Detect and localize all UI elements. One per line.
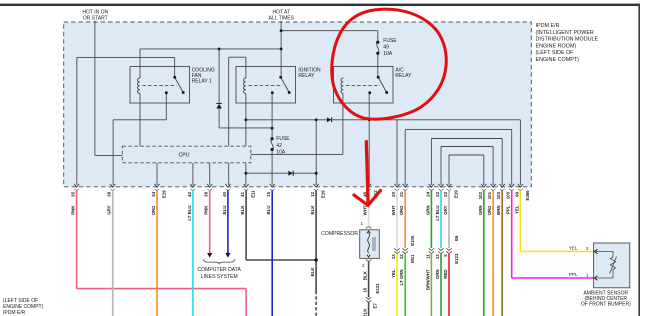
svg-text:(LEFT SIDE OF: (LEFT SIDE OF xyxy=(536,50,575,56)
svg-text:BLK: BLK xyxy=(363,308,368,316)
svg-text:PPL: PPL xyxy=(506,205,511,214)
svg-text:103: 103 xyxy=(496,191,501,199)
svg-text:E7: E7 xyxy=(372,303,377,309)
svg-text:BLK: BLK xyxy=(240,205,245,215)
svg-text:HOT AT: HOT AT xyxy=(272,9,290,15)
svg-text:GRN: GRN xyxy=(425,206,430,216)
svg-text:WHT: WHT xyxy=(363,205,368,215)
svg-text:RED: RED xyxy=(443,270,448,279)
svg-text:22: 22 xyxy=(435,191,440,196)
svg-text:HOT IN ON: HOT IN ON xyxy=(82,9,108,15)
svg-text:42: 42 xyxy=(187,191,192,196)
svg-text:BLK: BLK xyxy=(310,205,315,215)
svg-text:BLK: BLK xyxy=(363,270,368,280)
svg-text:DISTRIBUTION MODULE: DISTRIBUTION MODULE xyxy=(536,37,599,43)
svg-text:10: 10 xyxy=(363,287,368,292)
svg-text:YEL: YEL xyxy=(391,269,396,278)
svg-text:(LEFT SIDE OF: (LEFT SIDE OF xyxy=(3,298,38,304)
svg-text:41: 41 xyxy=(240,191,245,196)
svg-text:15: 15 xyxy=(266,191,271,196)
svg-text:35: 35 xyxy=(71,191,76,196)
svg-text:11: 11 xyxy=(425,254,430,259)
svg-text:GRY: GRY xyxy=(443,205,448,214)
svg-text:10A: 10A xyxy=(383,51,393,57)
svg-text:ENGINE ROOM): ENGINE ROOM) xyxy=(536,43,577,49)
svg-text:ORG: ORG xyxy=(487,205,492,216)
svg-text:WHT: WHT xyxy=(391,205,396,215)
svg-text:99: 99 xyxy=(514,191,519,196)
svg-text:ORG: ORG xyxy=(399,205,404,216)
svg-text:BLK: BLK xyxy=(310,267,315,277)
svg-text:49: 49 xyxy=(383,45,389,51)
svg-text:COMPUTER DATA: COMPUTER DATA xyxy=(198,267,242,273)
svg-text:E6: E6 xyxy=(454,235,459,241)
svg-text:E19: E19 xyxy=(321,190,326,198)
svg-text:YEL: YEL xyxy=(569,246,578,251)
svg-text:12: 12 xyxy=(310,191,315,196)
svg-text:LT BLU: LT BLU xyxy=(435,206,440,221)
svg-text:BRN/WHT: BRN/WHT xyxy=(425,269,430,290)
svg-text:E123: E123 xyxy=(454,253,459,264)
svg-text:101: 101 xyxy=(487,191,492,199)
svg-text:OR START: OR START xyxy=(83,16,108,22)
svg-text:24: 24 xyxy=(425,191,430,196)
svg-text:GRN: GRN xyxy=(435,270,440,280)
svg-text:FUSE: FUSE xyxy=(276,136,290,142)
svg-text:BLU: BLU xyxy=(266,206,271,215)
svg-text:IPDM E/R: IPDM E/R xyxy=(536,23,560,29)
svg-text:100: 100 xyxy=(506,191,511,199)
svg-text:RELAY: RELAY xyxy=(395,73,412,79)
svg-text:COMPRESSOR: COMPRESSOR xyxy=(321,231,358,237)
svg-text:RELAY 1: RELAY 1 xyxy=(192,79,212,85)
svg-text:BLU: BLU xyxy=(222,206,227,215)
svg-text:E19: E19 xyxy=(162,190,167,198)
svg-text:E366: E366 xyxy=(525,190,530,201)
svg-text:LT GRN: LT GRN xyxy=(399,270,404,286)
svg-text:38: 38 xyxy=(107,191,112,196)
svg-text:PNK: PNK xyxy=(204,205,209,215)
svg-text:20: 20 xyxy=(391,191,396,196)
svg-text:BRN: BRN xyxy=(496,206,501,215)
svg-text:12: 12 xyxy=(399,254,404,259)
svg-text:FUSE: FUSE xyxy=(383,38,397,44)
svg-text:RELAY: RELAY xyxy=(298,73,315,79)
svg-text:M11: M11 xyxy=(410,254,415,263)
svg-text:13: 13 xyxy=(391,254,396,259)
svg-text:PPL: PPL xyxy=(569,272,578,277)
svg-text:IPDM E/R: IPDM E/R xyxy=(3,310,26,316)
svg-text:102: 102 xyxy=(478,191,483,199)
svg-text:34: 34 xyxy=(151,191,156,196)
svg-text:ALL TIMES: ALL TIMES xyxy=(269,16,295,22)
svg-text:GRN: GRN xyxy=(478,206,483,216)
svg-text:LINES SYSTEM: LINES SYSTEM xyxy=(201,274,238,280)
svg-text:ENGINE COMPT): ENGINE COMPT) xyxy=(536,57,580,63)
svg-text:ORG: ORG xyxy=(151,205,156,216)
svg-text:LT BLU: LT BLU xyxy=(187,206,192,221)
svg-text:(INTELLIGENT POWER: (INTELLIGENT POWER xyxy=(536,30,594,36)
svg-text:PNK: PNK xyxy=(71,205,76,215)
svg-text:40: 40 xyxy=(222,191,227,196)
svg-text:13: 13 xyxy=(435,254,440,259)
svg-text:E105: E105 xyxy=(410,235,415,246)
svg-text:10A: 10A xyxy=(276,150,286,156)
svg-text:E11: E11 xyxy=(251,190,256,198)
svg-text:E19: E19 xyxy=(454,190,459,198)
svg-text:CPU: CPU xyxy=(179,153,190,159)
svg-text:ENGINE COMPT): ENGINE COMPT) xyxy=(3,304,44,310)
svg-text:39: 39 xyxy=(204,191,209,196)
svg-text:42: 42 xyxy=(276,143,282,149)
svg-text:GRY: GRY xyxy=(107,205,112,214)
svg-text:E121: E121 xyxy=(375,283,380,294)
svg-text:YEL: YEL xyxy=(514,205,519,214)
svg-text:21: 21 xyxy=(399,191,404,196)
svg-text:23: 23 xyxy=(443,191,448,196)
svg-text:OF FRONT BUMPER): OF FRONT BUMPER) xyxy=(581,302,631,308)
